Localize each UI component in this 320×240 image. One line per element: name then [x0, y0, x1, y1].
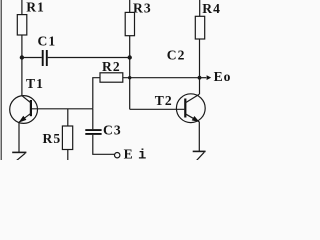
svg-text:C2: C2 — [167, 47, 186, 62]
svg-text:Eo: Eo — [214, 69, 232, 84]
resistor R5 — [62, 126, 72, 150]
node junction dot (R2 right wire crossing) — [128, 76, 131, 79]
wire R3 bottom — [129, 36, 131, 58]
wire T1 base — [31, 108, 93, 110]
node junction dot B — [128, 55, 132, 59]
resistor R4 — [195, 16, 204, 39]
svg-text:T1: T1 — [26, 76, 44, 91]
wire node B vertical — [129, 58, 131, 110]
wire R4 top — [199, 0, 201, 16]
transistor T2 — [176, 94, 205, 123]
ground (T2 emitter) — [193, 151, 206, 160]
svg-text:R3: R3 — [133, 0, 152, 15]
wire C1 left — [22, 57, 42, 59]
wire T2 emitter — [198, 122, 200, 152]
node junction dot A — [20, 55, 24, 59]
svg-text:R1: R1 — [26, 0, 45, 14]
wire (cropped at left edge) — [0, 0, 2, 160]
wire R2 right to output node — [123, 77, 200, 79]
wire R2 left — [93, 78, 100, 109]
capacitor C3 — [85, 130, 101, 134]
resistor R2 — [100, 73, 123, 82]
terminal Ei — [115, 153, 120, 158]
svg-text:C3: C3 — [103, 122, 122, 137]
svg-text:R5: R5 — [43, 131, 62, 146]
output arrow — [200, 75, 212, 80]
resistor R3 — [125, 12, 134, 35]
resistor R1 — [17, 15, 27, 35]
svg-text:R2: R2 — [102, 59, 121, 74]
wire R1 bottom — [21, 35, 23, 58]
wire T2 base — [130, 108, 185, 110]
wire C1 right — [48, 57, 130, 59]
wire C3 top drop — [92, 109, 94, 129]
node junction dot C — [198, 76, 202, 80]
capacitor C1 — [43, 50, 47, 66]
svg-text:R4: R4 — [202, 1, 221, 16]
wire R3 top — [129, 0, 131, 12]
wire R4 bottom / T2 collector — [199, 39, 201, 94]
wire T1 emitter — [18, 122, 20, 152]
wire R5 drop — [67, 109, 69, 126]
wire T1 collector — [21, 58, 23, 96]
wire C3 bottom to input terminal — [93, 135, 115, 155]
transistor T1 — [10, 96, 38, 124]
svg-text:T2: T2 — [155, 93, 173, 108]
svg-text:C1: C1 — [38, 33, 57, 48]
wire R5 bottom — [67, 150, 69, 161]
wire R1 top — [21, 0, 23, 15]
ground (T1 emitter) — [12, 152, 26, 160]
svg-text:Ei: Ei — [124, 146, 148, 160]
